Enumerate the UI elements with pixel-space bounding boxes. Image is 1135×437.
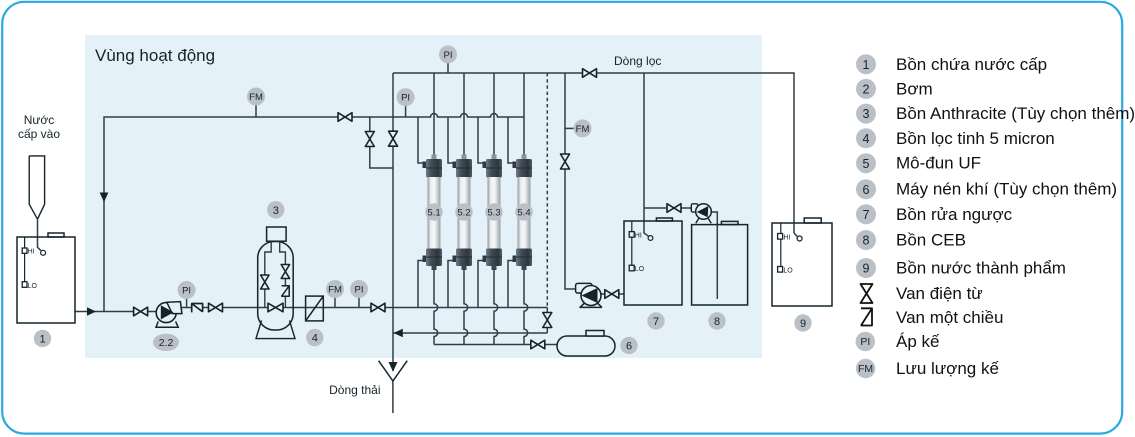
wire: module 5.3 top vertical	[493, 73, 495, 160]
flow arrow down on drain vertical	[389, 362, 398, 372]
svg-text:2.2: 2.2	[159, 337, 174, 349]
flow arrow right on feed line	[87, 307, 96, 315]
solenoid valve S3 on backwash riser	[561, 154, 570, 169]
gauge FM before drain junction	[326, 280, 344, 298]
wire: module 5.1 bottom vertical to air line C with hops over lines A and B	[434, 264, 438, 345]
svg-text:Áp kế: Áp kế	[896, 332, 940, 351]
valve V5 on header2	[338, 113, 352, 122]
wire: module 5.4 top side port from header2	[508, 117, 516, 163]
tag 7	[647, 312, 664, 329]
wire: filtrate drop line into tank 9 x=794	[794, 233, 797, 237]
svg-text:8: 8	[714, 316, 720, 328]
wire: feed-in stem from funnel to tank 1	[38, 219, 41, 250]
svg-text:7: 7	[653, 316, 659, 328]
wire: dashed CIP line x=547.3	[546, 73, 548, 308]
svg-text:cấp vào: cấp vào	[18, 127, 60, 141]
svg-text:3: 3	[273, 205, 279, 217]
svg-text:3: 3	[863, 107, 870, 121]
svg-text:Vùng hoạt động: Vùng hoạt động	[95, 46, 215, 65]
tag 3	[267, 201, 284, 218]
svg-text:HI: HI	[28, 249, 35, 256]
tank B3 vessel body	[258, 242, 294, 331]
flow arrow left on line B	[394, 329, 403, 338]
tank B1 HI switch	[22, 248, 27, 253]
pump P2.2 (feed pump)	[156, 302, 182, 328]
solenoid valve S1 on drain vertical	[389, 131, 398, 146]
gauge PI at pump 2.2	[178, 281, 196, 299]
svg-text:FM: FM	[858, 363, 873, 375]
tank B1 inlet drop circle	[41, 250, 46, 255]
wire: module 5.4 bottom vertical to air line C with hops	[524, 264, 528, 345]
wire: module 5.2 bottom side port to line A	[448, 261, 456, 308]
tank B9 HI switch	[778, 234, 783, 240]
svg-text:Van điện từ: Van điện từ	[896, 284, 983, 303]
legend item 4	[856, 128, 1055, 148]
valve V2 after check valve	[209, 303, 223, 312]
svg-text:LO: LO	[635, 266, 645, 273]
svg-text:2: 2	[863, 83, 870, 97]
wire: CEB transfer line from tank7 riser through valve and pump into tank 8	[644, 208, 717, 299]
tank B7 LO switch	[629, 265, 634, 271]
legend item 9	[856, 258, 1066, 278]
compressor C6 (Máy nén khí) body	[557, 336, 615, 356]
gauge PI on header1	[439, 45, 457, 63]
tank B7 inlet drop circle	[648, 236, 653, 241]
svg-text:9: 9	[863, 262, 870, 276]
svg-text:PI: PI	[182, 285, 191, 296]
wire: module 5.1 top vertical	[433, 73, 435, 160]
wire: module 5.4 bottom side port to line A	[508, 261, 516, 308]
tag 4	[306, 329, 323, 346]
tank B3 internal piping	[265, 242, 286, 308]
svg-text:Dòng lọc: Dòng lọc	[614, 54, 661, 68]
wire: feed line from tank 1 to pump 2.2 (y=311.5)	[75, 311, 160, 313]
svg-text:4: 4	[312, 333, 318, 345]
tank B3 skirt legs	[256, 321, 295, 339]
svg-text:5.1: 5.1	[427, 208, 440, 219]
svg-text:HI: HI	[783, 235, 790, 242]
svg-text:Van một chiều: Van một chiều	[896, 308, 1003, 327]
tank B9 LO switch	[778, 267, 783, 273]
legend item 5	[856, 153, 981, 173]
wire: module 5.4 top vertical	[523, 73, 525, 160]
tank B9 (Bồn nước thành phẩm)	[772, 218, 832, 306]
tank B3 (Anthracite) head	[267, 227, 287, 241]
svg-text:9: 9	[800, 318, 806, 330]
wire: main drain vertical x=393 from header1 down to drain funnel	[392, 73, 394, 371]
wire: module 5.1 bottom side port to line A	[418, 261, 426, 308]
tank B7 level sensor line	[631, 221, 633, 266]
check valve CV2 tank B3 right branch	[281, 286, 289, 296]
wire: backwash riser x=565 from header1 down to backwash pump	[565, 73, 576, 289]
svg-text:LO: LO	[783, 268, 793, 275]
wire: module 5.2 bottom vertical to air line C with hops	[464, 264, 468, 345]
svg-text:FM: FM	[576, 124, 590, 135]
wire: module 5.3 bottom side port to line A	[478, 261, 486, 308]
wire: header 1 (y=73) from main vertical to right corner down to tank 9	[393, 73, 794, 233]
UF module 5.3	[483, 155, 503, 271]
svg-text:Nước: Nước	[24, 113, 55, 127]
tag 5.4	[515, 203, 532, 220]
wire: module 5.2 top side port from header2	[448, 117, 456, 163]
svg-text:Bồn nước thành phẩm: Bồn nước thành phẩm	[896, 259, 1066, 278]
legend PI symbol	[856, 332, 940, 351]
flow arrow down on left riser	[100, 193, 109, 203]
tag 6	[620, 337, 637, 354]
compressor C6 top block	[586, 331, 604, 337]
svg-text:HI: HI	[635, 233, 642, 240]
gauge FM on backwash riser	[574, 119, 592, 137]
wire: FM stem on header2	[255, 105, 257, 117]
wire: module 5.3 top side port from header2	[478, 117, 486, 163]
tag 9	[794, 314, 811, 331]
legend item 3	[856, 104, 1135, 124]
valve V1 on feed line	[134, 307, 148, 316]
svg-text:8: 8	[863, 234, 870, 248]
svg-text:7: 7	[863, 208, 870, 222]
tank B7 (Bồn rửa ngược)	[624, 218, 682, 305]
svg-text:FM: FM	[249, 92, 263, 103]
tag 5.1	[425, 203, 442, 220]
svg-text:5: 5	[863, 157, 870, 171]
svg-text:Bồn chứa nước cấp: Bồn chứa nước cấp	[896, 55, 1047, 74]
tag 2.2	[153, 334, 179, 351]
valve V7 on CEB transfer line	[667, 204, 681, 213]
wire: FM stem on backwash riser	[565, 127, 574, 129]
valve V6 on filtrate header	[583, 69, 597, 78]
svg-text:PI: PI	[355, 284, 364, 295]
UF module 5.4	[513, 155, 533, 271]
wire: module 5.2 top vertical	[463, 73, 465, 160]
feed inlet funnel	[29, 156, 44, 219]
tag 5.2	[455, 203, 472, 220]
legend item 2	[856, 79, 933, 99]
wire: bypass branch x=369.8 from header2 down to drain vertical	[370, 117, 393, 168]
svg-text:6: 6	[626, 341, 632, 353]
filter F4 (Bồn lọc tinh 5 micron)	[306, 296, 324, 321]
tank B7 HI switch	[629, 232, 634, 238]
wire: main process line A from pump outlet through tank 3 and filter 4 to right end (y=307.5)	[172, 307, 547, 309]
wire: right end stub connecting line A junction down to line B through valve	[546, 308, 548, 334]
valve V8 at backwash pump outlet	[605, 290, 619, 299]
valve V9 on air line to compressor	[531, 340, 545, 349]
svg-text:5.4: 5.4	[517, 208, 530, 219]
drain funnel	[379, 361, 408, 381]
tag 1	[34, 330, 51, 347]
solenoid valve S6 tank B3 right branch	[281, 265, 289, 279]
svg-text:Máy nén khí (Tùy chọn thêm): Máy nén khí (Tùy chọn thêm)	[896, 180, 1117, 199]
wire: backwash return line B (y=333)	[393, 332, 547, 334]
svg-text:5.2: 5.2	[457, 208, 470, 219]
wire: drain funnel stem	[392, 381, 394, 413]
tank B1 (Bồn chứa nước cấp)	[17, 233, 75, 323]
svg-text:PI: PI	[860, 336, 870, 348]
tank B1 level sensor line	[24, 237, 26, 282]
gauge PI on header2	[397, 88, 415, 106]
svg-text:1: 1	[39, 334, 45, 346]
tank B9 level sensor line	[780, 223, 782, 266]
operating zone background	[85, 35, 762, 358]
wire: module 5.3 bottom vertical to air line C with hops	[494, 264, 498, 345]
wire: PI stem on header2	[405, 106, 407, 117]
UF module 5.2	[453, 155, 473, 271]
wire: FM stem before drain junction	[334, 298, 336, 308]
legend item 1	[856, 54, 1047, 74]
svg-text:1: 1	[863, 58, 870, 72]
solenoid valve S5 tank B3 left branch	[261, 275, 269, 289]
svg-text:Dòng thải: Dòng thải	[329, 383, 380, 397]
svg-text:5.3: 5.3	[487, 208, 500, 219]
legend item 6	[856, 179, 1117, 199]
wire: backwash pump outlet to tank 7	[599, 293, 624, 295]
UF module 5.1	[423, 155, 443, 271]
legend check valve symbol	[861, 308, 1004, 327]
wire: air scour line C from modules to compressor	[434, 344, 557, 346]
svg-text:Bồn Anthracite (Tùy chọn thêm): Bồn Anthracite (Tùy chọn thêm)	[896, 104, 1135, 123]
svg-text:FM: FM	[328, 284, 342, 295]
solenoid valve S2 on bypass branch	[365, 132, 374, 147]
pump P-backwash (backwash pump)	[576, 283, 602, 307]
tank B1 LO switch	[22, 282, 27, 288]
svg-text:Bồn lọc tinh 5 micron: Bồn lọc tinh 5 micron	[896, 129, 1055, 148]
gauge FM on header2	[247, 88, 265, 106]
gauge PI before drain junction	[350, 280, 368, 298]
legend item 8	[856, 230, 966, 250]
tag 8	[708, 312, 725, 329]
svg-text:Bồn CEB: Bồn CEB	[896, 231, 966, 250]
tank B8 (Bồn CEB)	[692, 221, 748, 305]
svg-text:Lưu lượng kế: Lưu lượng kế	[896, 359, 999, 378]
wire: PI stem before drain junction	[358, 298, 360, 308]
check valve CV1 after pump 2.2	[192, 304, 203, 313]
wire: PI stem on header1	[447, 63, 449, 73]
svg-text:LO: LO	[28, 283, 38, 290]
valve V3 inside tank B3	[268, 303, 283, 312]
svg-text:PI: PI	[444, 50, 453, 61]
wire: left riser x=104 with header 2 (y=117) and hops over module top verticals	[104, 114, 524, 312]
legend item 7	[856, 204, 1013, 224]
svg-text:Mô-đun UF: Mô-đun UF	[896, 154, 981, 173]
svg-text:Bồn rửa ngược: Bồn rửa ngược	[896, 205, 1013, 224]
pump P-CEB (CEB dosing pump)	[691, 204, 711, 224]
solenoid valve S4 below dashed line	[543, 313, 552, 328]
svg-text:6: 6	[863, 183, 870, 197]
legend FM symbol	[856, 359, 1000, 378]
svg-text:Bơm: Bơm	[896, 80, 933, 99]
tank B9 inlet drop circle	[797, 236, 802, 241]
valve V4 before drain junction	[371, 303, 385, 312]
wire: filtrate drop line into tank 7 x=644	[644, 73, 649, 236]
wire: PI stem at pump 2.2	[186, 299, 188, 308]
wire: module 5.1 top side port from header2	[418, 117, 426, 163]
tag 5.3	[485, 203, 502, 220]
svg-text:4: 4	[863, 132, 870, 146]
svg-text:PI: PI	[401, 93, 410, 104]
legend solenoid valve symbol	[861, 284, 983, 303]
